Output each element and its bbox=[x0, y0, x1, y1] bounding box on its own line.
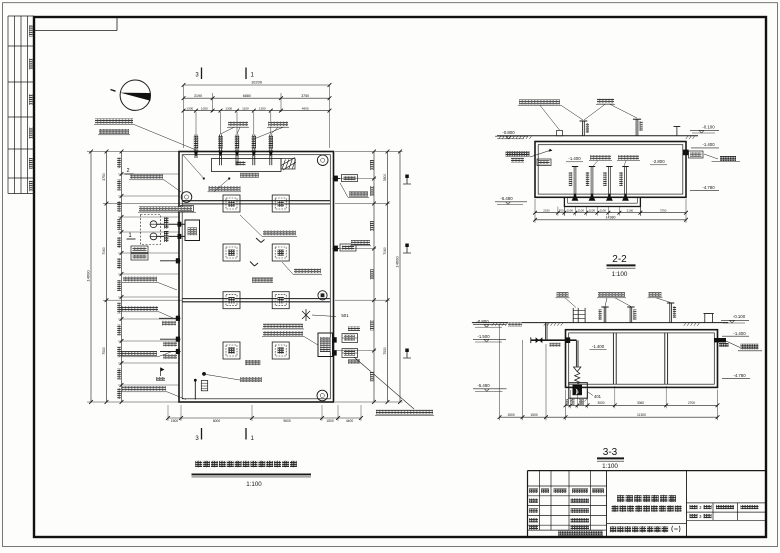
svg-text:3190: 3190 bbox=[194, 94, 202, 98]
title block left table verticals bbox=[539, 471, 541, 530]
corner circle top-right bbox=[317, 155, 328, 166]
svg-text:-0.100: -0.100 bbox=[733, 314, 746, 319]
title block project name line1 bbox=[617, 495, 624, 502]
section33 ladder bbox=[572, 308, 574, 323]
svg-text:-5.480: -5.480 bbox=[477, 383, 490, 388]
svg-text:1500: 1500 bbox=[507, 413, 515, 417]
svg-text:-2.800: -2.800 bbox=[652, 159, 665, 164]
svg-text:1:100: 1:100 bbox=[246, 481, 262, 488]
top-left leader text 1 bbox=[95, 119, 133, 124]
trough label bbox=[236, 161, 246, 166]
svg-text:-0.100: -0.100 bbox=[702, 124, 715, 129]
svg-text:1100: 1100 bbox=[242, 107, 249, 111]
svg-text:1100: 1100 bbox=[578, 209, 585, 213]
section33 right leader text bbox=[726, 341, 740, 348]
left wall pipe stub d bbox=[160, 351, 181, 353]
corner circle left wall bbox=[181, 192, 192, 203]
svg-text:-0.800: -0.800 bbox=[476, 319, 489, 324]
svg-text:-1.400: -1.400 bbox=[702, 142, 715, 147]
cross arrow near wall2 bbox=[302, 311, 310, 319]
svg-text:1:100: 1:100 bbox=[612, 271, 628, 278]
label sludge tank bbox=[245, 360, 261, 365]
left register table bbox=[7, 16, 9, 194]
svg-text:501: 501 bbox=[341, 313, 349, 318]
arrow L mark 1 bbox=[256, 238, 261, 243]
section22 internal pipes bbox=[573, 167, 575, 197]
top leader text b bbox=[268, 122, 288, 127]
section33 inlet drop from ground bbox=[544, 323, 546, 340]
plan top total dim bbox=[183, 85, 185, 148]
section33 top leader mid bbox=[598, 292, 625, 297]
section33 pump blob bbox=[573, 385, 583, 395]
right pump flange symbols bbox=[342, 334, 358, 343]
pump pit label underlined bbox=[139, 207, 192, 212]
section33 divider 2 bbox=[664, 333, 666, 384]
section22 riser pipe A bbox=[582, 121, 584, 136]
section33 left drop pipe bbox=[575, 340, 577, 366]
svg-text:2700: 2700 bbox=[688, 401, 695, 405]
svg-text:1:100: 1:100 bbox=[602, 463, 618, 470]
section33 check valve bbox=[574, 367, 581, 372]
label lvchi shuichi bbox=[240, 173, 259, 178]
svg-text:-1.400: -1.400 bbox=[568, 156, 581, 161]
title block right divider bbox=[686, 471, 688, 536]
svg-text:3060: 3060 bbox=[637, 401, 644, 405]
plan dividing wall 2 bbox=[182, 298, 330, 300]
svg-text:1050: 1050 bbox=[201, 107, 208, 111]
plan left dim row3 bbox=[121, 152, 123, 403]
svg-text:-1.400: -1.400 bbox=[733, 331, 746, 336]
svg-text:1300: 1300 bbox=[225, 107, 232, 111]
plan section mark 1 top bbox=[245, 68, 247, 80]
title block right cell texts bbox=[690, 505, 698, 509]
section22 total dim bbox=[535, 219, 686, 221]
section33 wall flange diamond bbox=[565, 337, 570, 343]
leader text left 1 bbox=[123, 277, 157, 282]
svg-text:3750: 3750 bbox=[301, 94, 309, 98]
svg-text:6000: 6000 bbox=[213, 419, 221, 423]
section33 dim row lower bbox=[500, 416, 718, 418]
svg-text:3000: 3000 bbox=[597, 401, 604, 405]
title block header smudges bbox=[529, 489, 538, 493]
svg-text:14600: 14600 bbox=[85, 270, 90, 282]
inside label slope2 underlined bbox=[294, 269, 321, 274]
svg-text:3900: 3900 bbox=[383, 174, 387, 182]
leader text left bottom underlined bbox=[122, 386, 166, 391]
bottom-left dark node with leader bbox=[202, 372, 206, 376]
section33 dim extensions bbox=[499, 325, 501, 420]
inside label slope underlined bbox=[263, 231, 296, 236]
inlet trough bbox=[212, 159, 282, 172]
svg-text:14380: 14380 bbox=[606, 216, 616, 220]
top-left strip box bbox=[34, 30, 117, 32]
pump circles bbox=[150, 221, 157, 228]
pump pipe labels rotated bbox=[164, 218, 169, 229]
section22 leader text left bbox=[519, 100, 560, 105]
plan top dim row3 bbox=[184, 110, 330, 112]
leader text left upper bbox=[130, 174, 163, 179]
left pump pit box bbox=[185, 220, 200, 241]
inside label water inlet underlined bbox=[209, 186, 241, 191]
svg-text:7530: 7530 bbox=[102, 347, 106, 355]
label middle tank bbox=[252, 278, 273, 283]
left wall DN100 boxed labels bbox=[131, 246, 148, 253]
section22 tank inner bbox=[538, 145, 683, 194]
plan top dim row2 bbox=[212, 93, 214, 112]
section33 riser 1 bbox=[603, 307, 605, 323]
svg-text:11300: 11300 bbox=[637, 413, 646, 417]
svg-text:1100: 1100 bbox=[567, 209, 574, 213]
two-line underlined note bbox=[263, 324, 303, 329]
right wall stub 1 bbox=[333, 178, 341, 180]
section33 pit hatch bbox=[566, 398, 569, 401]
section33 flex zigzag bbox=[575, 372, 580, 385]
svg-text:401: 401 bbox=[594, 394, 602, 399]
title block right box lines bbox=[687, 502, 766, 504]
svg-text:-0.800: -0.800 bbox=[502, 130, 515, 135]
pump group dashed enclosure bbox=[141, 215, 161, 245]
section33 dim row upper bbox=[566, 404, 718, 406]
svg-text:4850: 4850 bbox=[302, 107, 309, 111]
arrow L mark 2 bbox=[250, 262, 255, 267]
section22 leader text vent bbox=[597, 99, 614, 104]
left wall pipe stub a bbox=[160, 260, 181, 262]
svg-text:-1.500: -1.500 bbox=[477, 334, 490, 339]
svg-text:3750: 3750 bbox=[102, 173, 106, 181]
top inlet pipes bbox=[194, 135, 196, 159]
right side section marker B bbox=[403, 252, 411, 254]
svg-text:7530: 7530 bbox=[383, 347, 387, 355]
right wall stub 2 bbox=[333, 248, 340, 250]
section33 top leader vent bbox=[557, 292, 569, 297]
title block project name line2 bbox=[612, 505, 619, 512]
svg-text:1500: 1500 bbox=[530, 413, 538, 417]
plan dividing wall 1 bbox=[182, 200, 330, 202]
north arrow bbox=[120, 80, 150, 110]
plan right extension lines bbox=[335, 151, 403, 153]
svg-text:7060: 7060 bbox=[102, 247, 106, 255]
svg-text:3-3: 3-3 bbox=[603, 447, 618, 458]
section22 right stub bbox=[676, 127, 678, 136]
plan left dim row2 bbox=[106, 152, 108, 403]
section22 left label two-line bbox=[506, 151, 530, 156]
circle wall2 right bbox=[318, 291, 327, 300]
section33 divider 1 bbox=[612, 333, 614, 384]
title block left table horizontals bbox=[528, 485, 607, 487]
plan title text bbox=[195, 461, 202, 468]
section33 inlet valve bbox=[536, 337, 539, 343]
svg-text:2190: 2190 bbox=[543, 209, 550, 213]
section33 riser 2 bbox=[629, 307, 631, 323]
svg-text:1300: 1300 bbox=[259, 107, 266, 111]
leader text left 3 bbox=[119, 351, 157, 356]
plan section mark 1 bottom bbox=[245, 428, 247, 440]
section22 dim extensions bbox=[534, 199, 536, 223]
register column text bbox=[29, 26, 33, 37]
plan left extension lines bbox=[87, 151, 179, 153]
section33 inlet label DN150 bbox=[550, 343, 561, 347]
svg-text:1100: 1100 bbox=[589, 209, 596, 213]
section22 left small box bbox=[537, 159, 551, 166]
svg-text:-4.780: -4.780 bbox=[702, 185, 715, 190]
left wall pipe stub c bbox=[160, 338, 181, 340]
top-left leader text 2 bbox=[99, 129, 129, 134]
section22 ground stub bbox=[557, 131, 563, 136]
small flag symbol bbox=[161, 368, 165, 372]
plan right dim row2 bbox=[387, 152, 389, 403]
section33 right ground stub bbox=[704, 314, 706, 323]
svg-text:1500: 1500 bbox=[326, 419, 334, 423]
section22 ground line bbox=[497, 135, 698, 137]
plan tank outer wall bbox=[179, 152, 334, 403]
section22 riser pipe B bbox=[635, 119, 637, 136]
pump discharge pipes bbox=[157, 223, 185, 225]
plan title underline bbox=[192, 473, 312, 475]
section22 right flange bbox=[683, 150, 689, 156]
right side section marker A bbox=[403, 183, 411, 185]
section33 top leader out bbox=[649, 292, 662, 297]
svg-text:14600: 14600 bbox=[394, 256, 399, 268]
title block sheet title bbox=[610, 526, 617, 533]
title block center divider bbox=[607, 523, 687, 525]
bottom-left screen box bbox=[201, 380, 207, 390]
svg-text:7060: 7060 bbox=[383, 247, 387, 255]
svg-text:700: 700 bbox=[559, 209, 564, 213]
svg-text:-5.480: -5.480 bbox=[500, 196, 513, 201]
left wall pipe stub b bbox=[159, 317, 181, 319]
section33 right flange bbox=[715, 338, 727, 342]
svg-text:1300: 1300 bbox=[186, 107, 193, 111]
title block date row bbox=[558, 531, 603, 536]
svg-text:1500: 1500 bbox=[171, 419, 179, 423]
left wall small DN box bbox=[181, 206, 194, 212]
title block outline bbox=[528, 470, 766, 472]
section33 inlet pipe horizontal bbox=[531, 339, 577, 341]
top leader text a bbox=[228, 122, 248, 127]
plan bottom dim bbox=[168, 417, 361, 419]
plan right dim total bbox=[399, 152, 401, 403]
right side section marker C bbox=[403, 357, 411, 359]
right wall pump box bbox=[318, 333, 333, 357]
plan left dim total 14600 bbox=[88, 151, 179, 153]
bottom-left pump riser bbox=[194, 381, 196, 400]
svg-text:6880: 6880 bbox=[243, 94, 251, 98]
svg-text:2: 2 bbox=[126, 168, 129, 174]
long leader to note bottom-right bbox=[354, 357, 414, 409]
svg-text:3750: 3750 bbox=[660, 209, 667, 213]
section22 dim row bbox=[535, 212, 686, 214]
section33 riser 3 bbox=[669, 303, 671, 323]
corner circle bottom-right bbox=[317, 390, 328, 401]
svg-text:10200: 10200 bbox=[251, 80, 263, 85]
section33 tank inner bbox=[569, 333, 715, 384]
plan right dim row1 bbox=[373, 152, 375, 403]
title block row labels bbox=[529, 499, 538, 503]
plan tank inner wall bbox=[182, 155, 330, 399]
section22 tank outer bbox=[535, 142, 686, 198]
section33 sump pit bbox=[569, 383, 588, 399]
plan columns bbox=[223, 195, 240, 212]
section22 sump bbox=[564, 197, 640, 206]
svg-text:-4.780: -4.780 bbox=[733, 373, 746, 378]
section33 tank outer bbox=[566, 330, 718, 388]
section33 ground line bbox=[472, 322, 728, 324]
svg-text:2-2: 2-2 bbox=[612, 254, 627, 265]
svg-text:-1.400: -1.400 bbox=[592, 344, 605, 349]
svg-text:4400: 4400 bbox=[346, 419, 354, 423]
leader text left 2 bbox=[120, 306, 158, 311]
trough weir hatch bbox=[281, 159, 295, 170]
svg-text:1100: 1100 bbox=[600, 209, 607, 213]
svg-text:9600: 9600 bbox=[283, 419, 291, 423]
svg-text:2100: 2100 bbox=[627, 209, 634, 213]
